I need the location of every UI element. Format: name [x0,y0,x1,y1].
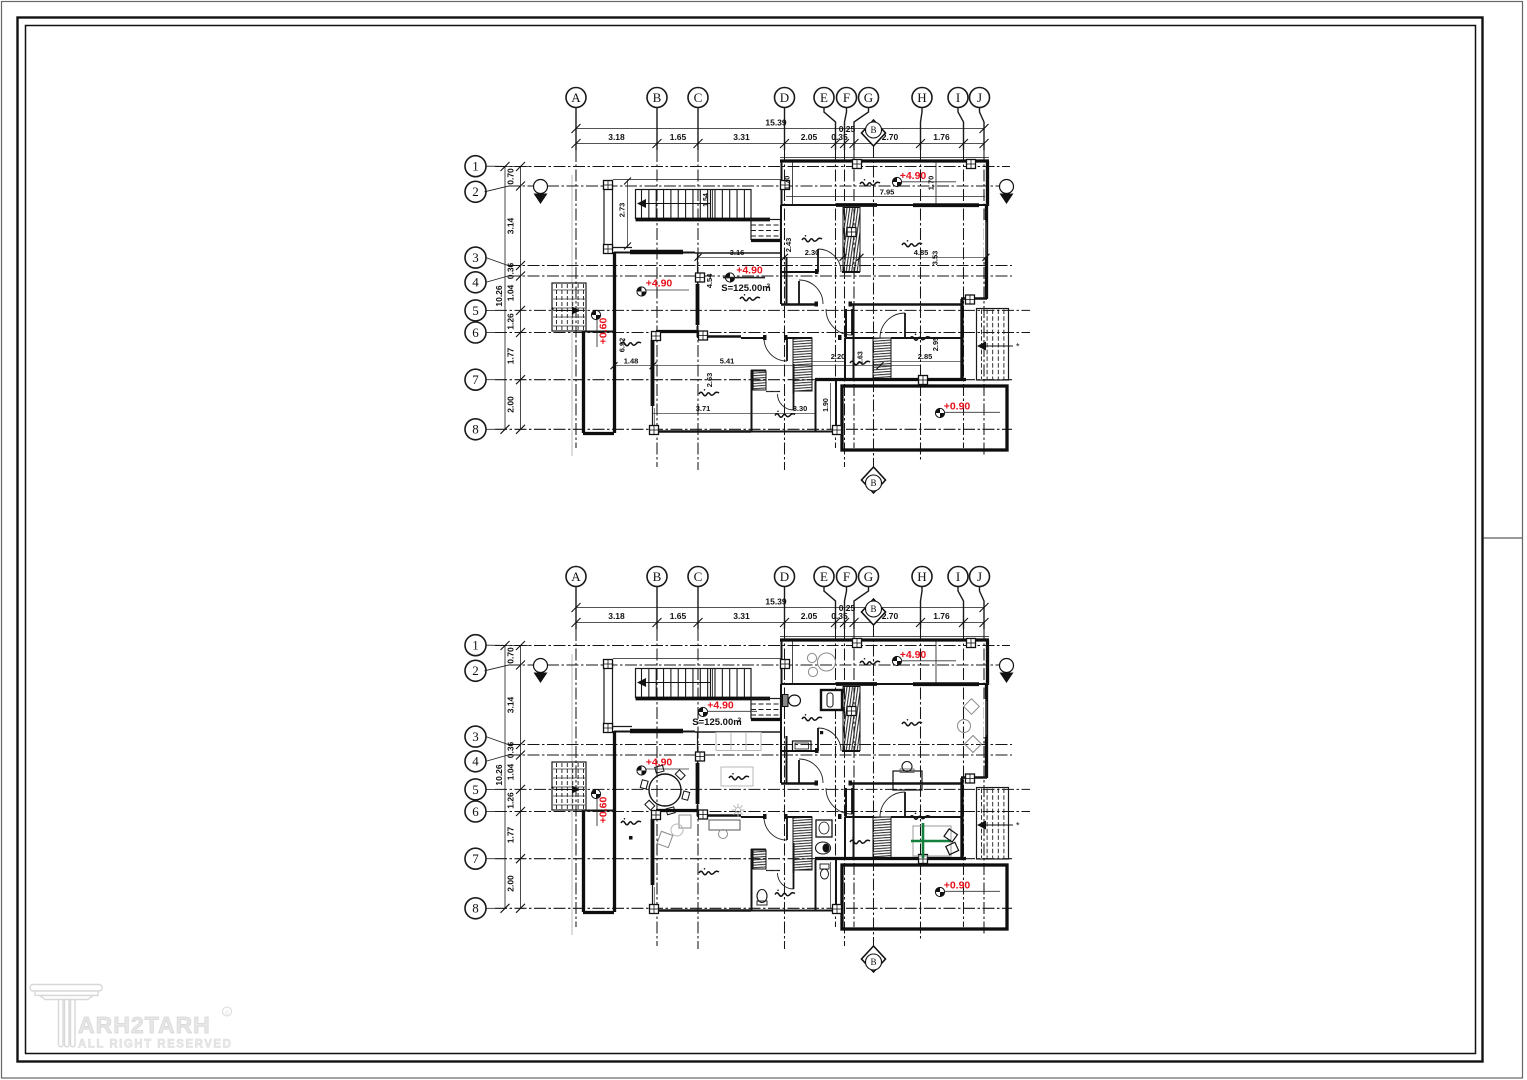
dim line y365 [614,365,920,367]
svg-text:6.92: 6.92 [618,338,627,353]
dining table round with chairs [649,774,681,806]
svg-text:3.53: 3.53 [931,251,940,266]
svg-text:2.85: 2.85 [918,352,933,361]
svg-text:2.20: 2.20 [831,352,846,361]
armchairs and plant left [679,815,691,828]
svg-text:c: c [225,1010,229,1017]
green bed right bedroom [913,826,951,856]
logo column icon [30,985,102,1047]
svg-text:1.70: 1.70 [783,176,792,191]
svg-text:2.95: 2.95 [931,337,940,352]
svg-text:2.30: 2.30 [805,248,820,257]
svg-text:ARH2TARH: ARH2TARH [78,1012,211,1038]
svg-text:2: 2 [767,283,771,290]
svg-text:1.48: 1.48 [624,357,639,366]
room label living nashiman [740,297,760,301]
svg-text:S=125.00m: S=125.00m [692,717,741,728]
bedroom1 desk and chairs [893,771,922,790]
svg-text:S=125.00m: S=125.00m [721,283,770,294]
bathroom1 toilet [783,695,789,707]
svg-text:ALL RIGHT RESERVED: ALL RIGHT RESERVED [78,1039,232,1051]
red +4.90 living and area [725,273,734,282]
dark chair next to bed [944,829,957,842]
red +4.90 near stair + area [698,707,707,716]
sofa set top [716,733,761,751]
svg-text:+4.90: +4.90 [707,700,734,712]
second floor plan (furnished) [465,567,1030,973]
bathroom3 sink [816,820,832,837]
WC toilet [820,864,829,869]
bathroom2 toilet [757,890,767,903]
dim line y413 [653,412,815,414]
svg-text:3.16: 3.16 [730,248,745,257]
svg-text:1.63: 1.63 [858,351,865,365]
lamp sunburst [732,804,745,817]
dims 2.20 2.85 [812,360,846,362]
svg-text:2.73: 2.73 [618,203,627,218]
svg-text:2: 2 [738,717,742,724]
svg-text:4.54: 4.54 [705,273,714,288]
first floor plan [465,88,1030,494]
svg-text:7.95: 7.95 [880,188,895,197]
svg-text:3.71: 3.71 [696,404,711,413]
interior dim line row y257 [698,256,986,258]
bathroom3 toilet [816,842,831,854]
dim 7.95 terrace [786,196,985,198]
tv console [709,820,740,830]
svg-text:2.43: 2.43 [784,238,793,253]
bedroom1 plants/chairs right [964,699,980,715]
black dot terrace [629,836,633,840]
svg-text:+4.90: +4.90 [736,265,763,277]
nashiman label box [721,767,753,786]
rotated dims left/stair [627,180,629,247]
bathroom1 shower tray [793,741,812,751]
terrace plant circles [807,653,816,662]
right margin divider [1483,537,1522,539]
svg-text:1.90: 1.90 [823,398,830,412]
svg-text:4.85: 4.85 [914,248,929,257]
svg-text:5.41: 5.41 [720,357,735,366]
bathroom1 sink [821,690,842,710]
svg-text:3.30: 3.30 [793,404,808,413]
svg-text:1.54: 1.54 [703,193,710,207]
svg-text:1.70: 1.70 [927,176,936,191]
svg-text:2.63: 2.63 [705,373,714,388]
